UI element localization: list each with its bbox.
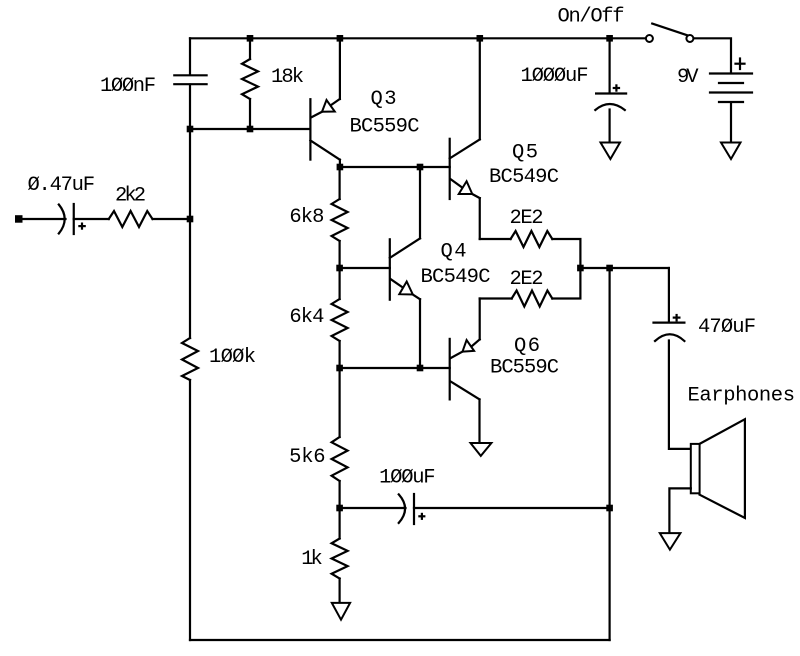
svg-text:Earphones: Earphones — [688, 385, 796, 408]
ground speaker — [660, 533, 681, 550]
label Q6 — [514, 335, 540, 358]
wire bottom rail — [190, 639, 610, 641]
node output left — [577, 265, 584, 272]
node output bus — [606, 265, 613, 272]
resistor 100k — [182, 338, 198, 380]
node rail-Q5 collector — [477, 35, 484, 42]
wire 470uF to speaker — [669, 341, 691, 449]
svg-text:1ØØuF: 1ØØuF — [379, 467, 436, 490]
label BC559C — [350, 116, 420, 139]
switch On/Off — [646, 24, 694, 42]
wire 1000uF to ground — [608, 110, 610, 143]
wire right bus — [608, 268, 610, 640]
label 1k — [301, 548, 323, 571]
wire left rail top — [189, 38, 191, 74]
node rail-18k — [247, 35, 254, 42]
node rail-Q3 emitter — [337, 35, 344, 42]
label 18k — [271, 66, 304, 89]
wire Q5 emitter to 2E2 — [480, 238, 511, 240]
wire speaker to ground — [669, 488, 690, 531]
node Q6 base riser — [417, 365, 424, 372]
capacitor 0.47uF — [59, 204, 85, 234]
capacitor 100nF — [174, 75, 206, 84]
label 470uF — [698, 316, 756, 339]
wire left rail bottom — [189, 380, 191, 640]
svg-text:Q6: Q6 — [514, 335, 540, 358]
label BC559C — [490, 357, 559, 380]
svg-text:2k2: 2k2 — [115, 185, 146, 208]
node input terminal — [15, 215, 23, 223]
svg-text:BC559C: BC559C — [350, 116, 420, 139]
svg-text:1ØØk: 1ØØk — [209, 346, 256, 369]
wire cap to 2k2 — [74, 218, 109, 220]
label 9V — [677, 66, 699, 89]
label On/Off — [558, 6, 625, 29]
transistor Q6 — [450, 299, 480, 444]
svg-text:9V: 9V — [677, 66, 699, 89]
node rail-1000uF — [606, 35, 613, 42]
wire Q4 collector riser — [419, 167, 421, 238]
label 5k6 — [289, 446, 326, 469]
svg-text:1ØØnF: 1ØØnF — [100, 75, 156, 98]
label 1000uF — [521, 65, 589, 88]
wire 2k2 to rail — [153, 218, 191, 220]
ground 1000uF — [601, 143, 621, 160]
wire 100uF line right — [414, 507, 610, 509]
wire switch to battery — [694, 38, 731, 72]
label 6k4 — [289, 306, 324, 329]
wire Q3 base line — [190, 128, 310, 130]
svg-text:18k: 18k — [271, 66, 304, 89]
ground battery — [721, 143, 741, 160]
transistor Q5 — [450, 38, 480, 239]
wire output line — [580, 267, 669, 269]
node y167 riser — [417, 164, 424, 171]
wire 2E2 upper to node — [552, 239, 580, 268]
resistor 2k2 — [109, 211, 153, 227]
node base line left — [187, 126, 194, 133]
svg-text:Ø.47uF: Ø.47uF — [28, 174, 96, 197]
svg-text:Q3: Q3 — [371, 88, 397, 111]
label Q5 — [512, 142, 538, 165]
wire rail to 1000uF — [608, 38, 610, 92]
wire battery to ground — [730, 103, 732, 143]
svg-text:2E2: 2E2 — [510, 207, 544, 230]
svg-text:2E2: 2E2 — [510, 268, 544, 291]
wire input — [19, 218, 66, 220]
capacitor 100uF — [399, 494, 425, 524]
capacitor 470uF — [654, 315, 685, 341]
wire Q6 base — [340, 367, 450, 369]
label 100uF — [379, 467, 436, 490]
svg-text:6k4: 6k4 — [289, 306, 324, 329]
label BC549C — [489, 166, 559, 189]
svg-text:BC549C: BC549C — [421, 266, 491, 289]
label 2E2 lower — [510, 268, 544, 291]
node Q4 base — [336, 265, 343, 272]
ground Q6 — [471, 443, 492, 456]
svg-text:1ØØØuF: 1ØØØuF — [521, 65, 589, 88]
label 2k2 — [115, 185, 146, 208]
wire 2E2 lower to node — [552, 268, 580, 299]
svg-text:BC549C: BC549C — [489, 166, 559, 189]
transistor Q3 — [310, 38, 340, 167]
label Q3 — [371, 88, 397, 111]
resistor 2E2 upper — [511, 231, 553, 247]
battery 9V — [710, 59, 752, 103]
capacitor 1000uF — [595, 85, 626, 110]
wire output to 470uF — [668, 268, 670, 322]
label Earphones — [688, 385, 796, 408]
svg-text:Q5: Q5 — [512, 142, 538, 165]
node 100uF left — [336, 505, 343, 512]
svg-text:1k: 1k — [301, 548, 323, 571]
transistor Q4 — [390, 238, 420, 368]
wire left rail — [189, 85, 191, 339]
wire top supply rail — [190, 37, 646, 39]
node base line 18k — [247, 126, 254, 133]
wire node line y167 — [340, 166, 450, 168]
label 6k8 — [289, 206, 324, 229]
svg-text:On/Off: On/Off — [558, 6, 625, 29]
resistor 6k4 — [332, 268, 348, 368]
node 100uF bus — [606, 505, 613, 512]
wire 100uF line left — [340, 507, 406, 509]
ground 1k — [332, 603, 350, 620]
label 100k — [209, 346, 256, 369]
label Q4 — [441, 241, 467, 264]
label BC549C — [421, 266, 491, 289]
label 100nF — [100, 75, 156, 98]
node input-rail — [187, 216, 194, 223]
wire Q4 base — [340, 267, 390, 269]
wire Q6 emitter to 2E2 — [480, 297, 512, 299]
resistor 2E2 lower — [512, 291, 553, 307]
label 0.47uF — [28, 174, 96, 197]
resistor 5k6 — [332, 368, 348, 508]
svg-text:5k6: 5k6 — [289, 446, 326, 469]
node y167 left — [337, 164, 344, 171]
svg-text:Q4: Q4 — [441, 241, 467, 264]
resistor 18k — [242, 38, 258, 129]
label 2E2 upper — [510, 207, 544, 230]
svg-text:BC559C: BC559C — [490, 357, 559, 380]
svg-text:47ØuF: 47ØuF — [698, 316, 756, 339]
speaker Earphones — [691, 419, 745, 518]
resistor 1k — [332, 508, 348, 601]
resistor 6k8 — [332, 167, 348, 268]
node Q6 base chain — [336, 365, 343, 372]
svg-text:6k8: 6k8 — [289, 206, 324, 229]
